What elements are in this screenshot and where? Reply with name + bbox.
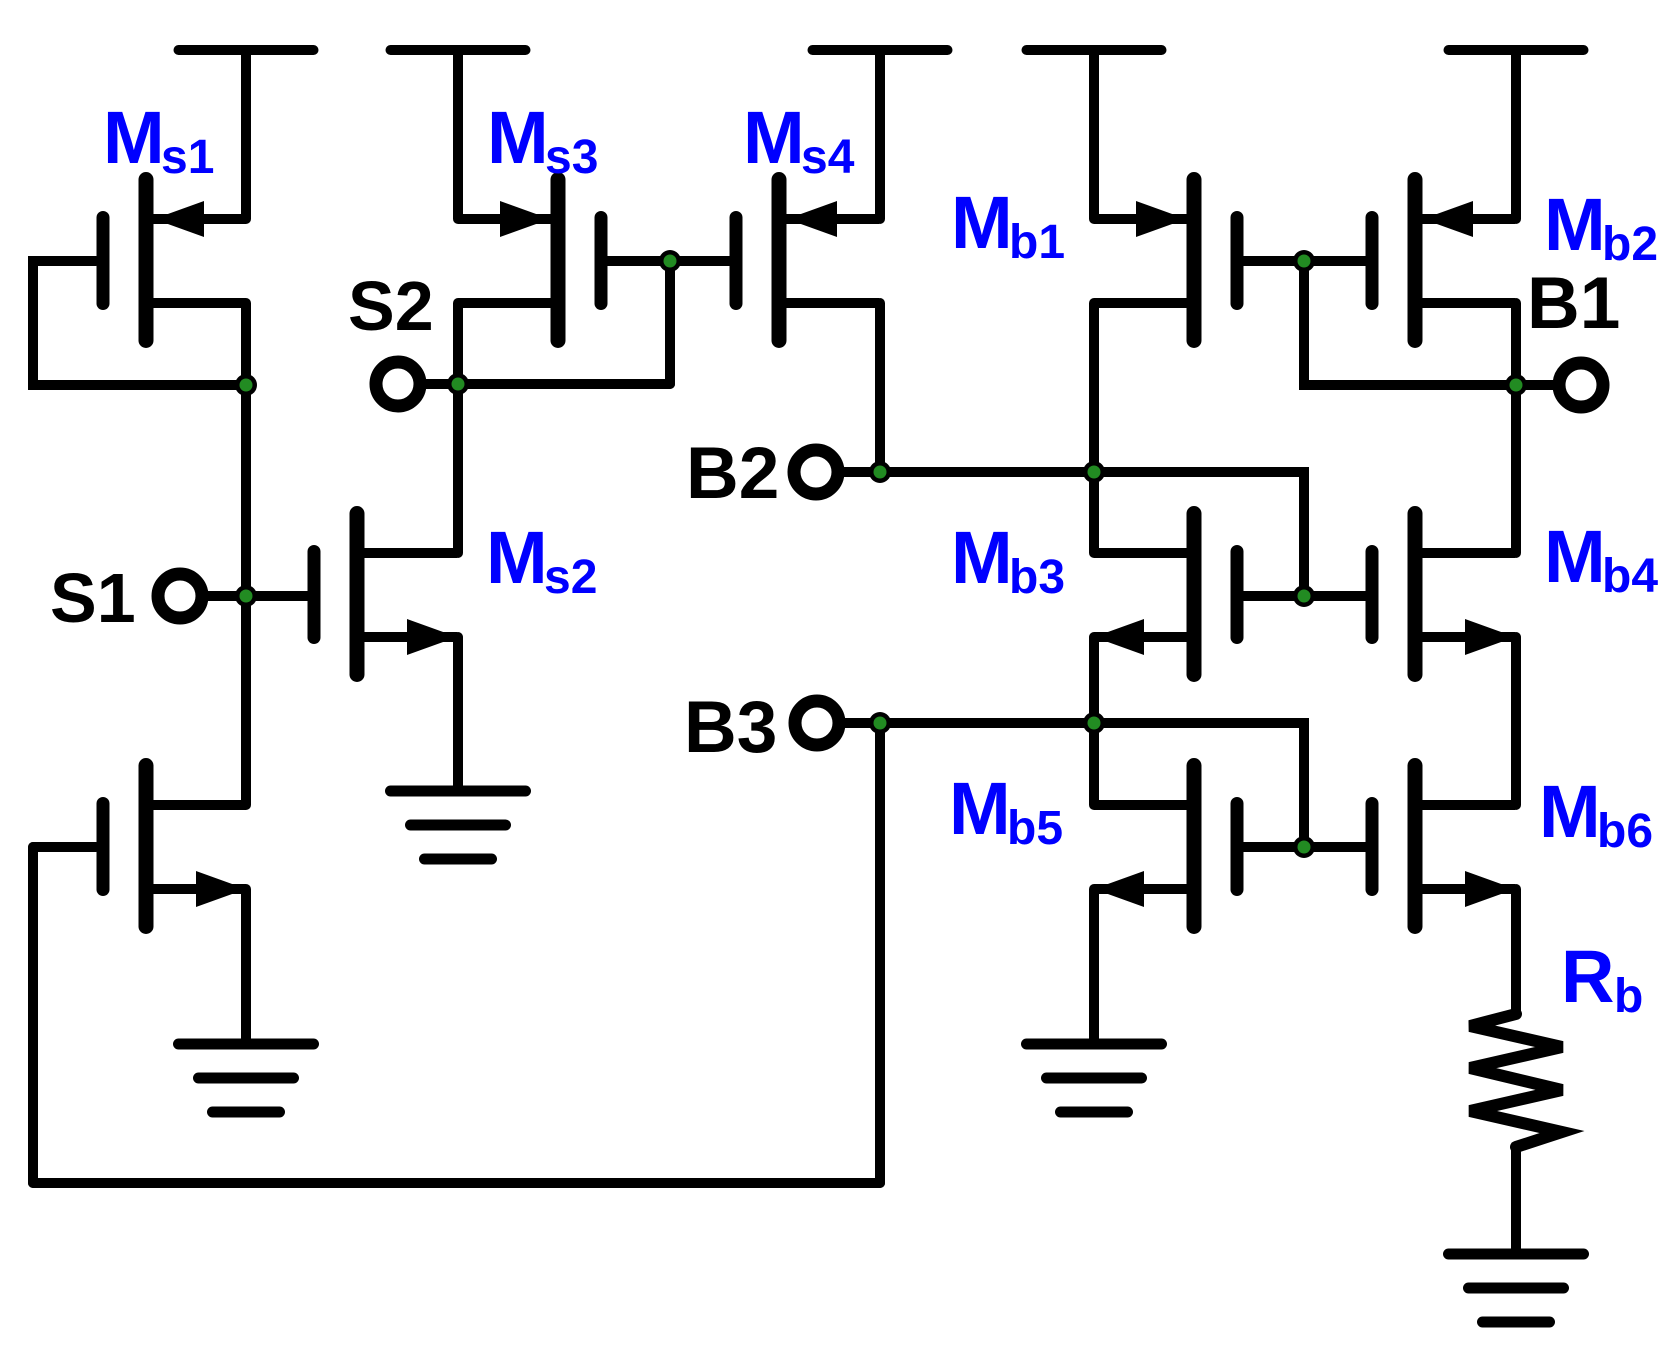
svg-text:s4: s4 bbox=[801, 131, 855, 184]
svg-text:R: R bbox=[1561, 935, 1614, 1018]
svg-text:b6: b6 bbox=[1597, 805, 1653, 858]
svg-text:M: M bbox=[1539, 770, 1601, 853]
svg-text:s3: s3 bbox=[545, 131, 598, 184]
svg-text:s2: s2 bbox=[544, 551, 597, 604]
svg-text:b5: b5 bbox=[1007, 802, 1063, 855]
svg-text:S2: S2 bbox=[348, 267, 434, 345]
svg-text:M: M bbox=[486, 516, 548, 599]
svg-text:M: M bbox=[951, 181, 1013, 264]
svg-text:B2: B2 bbox=[686, 433, 779, 514]
svg-text:M: M bbox=[949, 767, 1011, 850]
svg-text:S1: S1 bbox=[50, 559, 136, 637]
svg-text:b: b bbox=[1614, 970, 1643, 1023]
svg-text:B3: B3 bbox=[684, 687, 777, 768]
svg-text:M: M bbox=[743, 96, 805, 179]
svg-text:B1: B1 bbox=[1527, 263, 1620, 344]
svg-text:b3: b3 bbox=[1009, 551, 1065, 604]
svg-text:M: M bbox=[103, 96, 165, 179]
svg-text:M: M bbox=[487, 96, 549, 179]
svg-text:M: M bbox=[1544, 183, 1606, 266]
svg-text:M: M bbox=[951, 516, 1013, 599]
svg-text:M: M bbox=[1544, 515, 1606, 598]
svg-text:b1: b1 bbox=[1009, 216, 1065, 269]
svg-text:s1: s1 bbox=[161, 131, 214, 184]
svg-text:b4: b4 bbox=[1602, 550, 1658, 603]
